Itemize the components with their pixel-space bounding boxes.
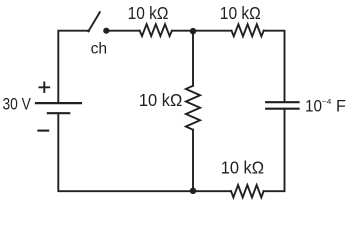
resistor R1 10k top-left zigzag: [140, 24, 172, 36]
wire R2 to top-right corner down to capacitor: [264, 31, 285, 101]
wire node B to R4: [193, 190, 231, 192]
wire R1 to node A: [172, 30, 193, 32]
battery minus sign: [38, 130, 48, 132]
capacitor C1 bottom plate: [266, 108, 298, 110]
switch ch blade: [88, 12, 99, 31]
wire bottom-left run and up to battery minus: [58, 114, 193, 191]
svg-text:30 V: 30 V: [3, 96, 32, 114]
battery V1 plus plate (long): [36, 102, 81, 104]
wire capacitor to bottom-right corner to R4: [264, 110, 285, 191]
wire R3 to node B: [192, 130, 194, 190]
node A junction dot: [190, 28, 196, 34]
svg-text:10 kΩ: 10 kΩ: [139, 90, 183, 110]
wire node A down to R3: [192, 32, 194, 86]
wire top-left corner to left branch: [58, 31, 89, 102]
battery V1 minus plate (short): [48, 112, 69, 114]
svg-text:−4: −4: [322, 97, 332, 106]
node B junction dot: [190, 188, 196, 194]
svg-text:ch: ch: [91, 41, 108, 58]
battery plus sign: [39, 83, 49, 93]
switch contact dot: [103, 28, 109, 34]
resistor R3 10k middle vertical zigzag: [186, 86, 200, 130]
svg-text:F: F: [336, 97, 346, 115]
svg-text:10 kΩ: 10 kΩ: [128, 3, 169, 23]
capacitor C1 top plate: [266, 101, 298, 103]
svg-text:10 kΩ: 10 kΩ: [221, 158, 265, 178]
resistor R2 10k top-right zigzag: [232, 24, 264, 36]
resistor R4 10k bottom zigzag: [231, 185, 263, 197]
svg-text:10: 10: [305, 96, 322, 115]
wire switch contact to R1: [109, 30, 139, 32]
svg-text:10 kΩ: 10 kΩ: [220, 3, 261, 23]
wire node A to R2: [193, 30, 232, 32]
